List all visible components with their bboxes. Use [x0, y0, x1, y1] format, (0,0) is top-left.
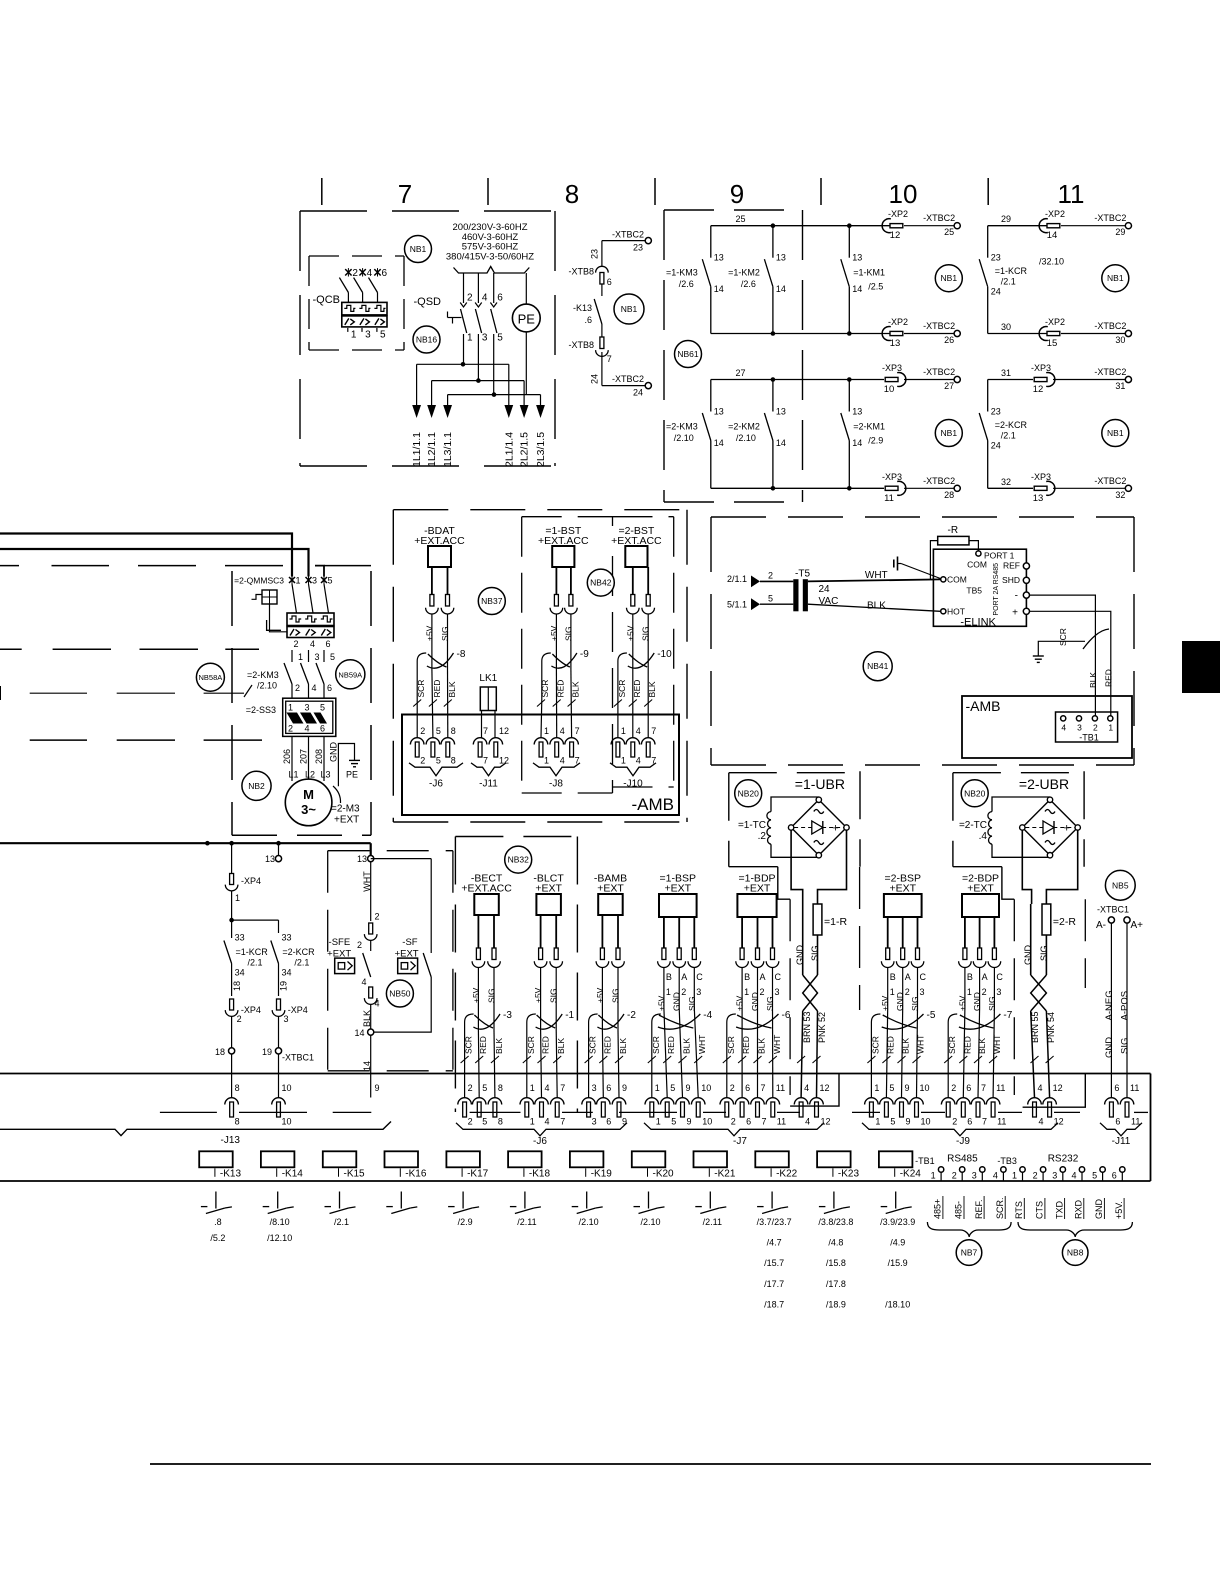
- svg-text:7: 7: [560, 1083, 565, 1093]
- connector -J11 bracket: [471, 763, 506, 790]
- svg-text:RTS: RTS: [1014, 1201, 1024, 1219]
- svg-text:NB1: NB1: [1107, 428, 1124, 438]
- svg-text:-XTBC2: -XTBC2: [1094, 367, 1126, 377]
- svg-text:13: 13: [265, 854, 275, 864]
- wire A2 GND: [972, 917, 988, 1011]
- connector pin 7: [641, 726, 656, 766]
- svg-text:14: 14: [776, 284, 786, 294]
- svg-text:SCR: SCR: [526, 1036, 536, 1054]
- wire SIG: [1039, 935, 1049, 975]
- svg-text:SIG: SIG: [1120, 1038, 1131, 1054]
- svg-text:4: 4: [482, 293, 488, 304]
- NB32 note circle: [505, 846, 532, 873]
- cable marker -10: [628, 649, 672, 668]
- terminal strip -TB3 RS232: [997, 1154, 1078, 1167]
- svg-text:-XTBC2: -XTBC2: [1094, 213, 1126, 223]
- relay contact -K15: [325, 1192, 356, 1228]
- svg-text:GND: GND: [972, 992, 982, 1011]
- svg-text:.8: .8: [214, 1217, 222, 1227]
- svg-text:7: 7: [761, 1083, 766, 1093]
- svg-text:=2-KM3: =2-KM3: [247, 670, 279, 680]
- svg-text:SIG: SIG: [910, 996, 920, 1011]
- svg-text:RED: RED: [666, 1036, 676, 1054]
- svg-text:=1-KCR: =1-KCR: [995, 266, 1028, 276]
- svg-text:A: A: [681, 972, 687, 982]
- wire 23 to terminal XTBC2-23: [590, 241, 646, 266]
- svg-text:REF: REF: [1003, 561, 1020, 571]
- svg-text:-TB1: -TB1: [915, 1156, 935, 1166]
- contactor auxiliary contact =1-KM1: [841, 226, 885, 334]
- svg-text:6: 6: [327, 683, 332, 693]
- svg-text:-R: -R: [948, 525, 959, 536]
- disconnect switch QSD: [414, 273, 504, 395]
- dashed frame edge and feed to pole 5: [0, 566, 371, 577]
- communication module -ELINK: [933, 549, 1029, 628]
- svg-text:12: 12: [820, 1083, 830, 1093]
- svg-text:4: 4: [993, 1171, 998, 1181]
- svg-text:/2.1: /2.1: [1001, 431, 1016, 441]
- resistor -R: [930, 525, 978, 579]
- svg-text:SCR: SCR: [1058, 628, 1068, 646]
- svg-text:PE: PE: [518, 311, 536, 326]
- wire B1 +5V: [880, 917, 896, 1011]
- svg-text:12: 12: [499, 726, 509, 736]
- svg-text:/2.10: /2.10: [640, 1217, 660, 1227]
- wire GND: [1023, 904, 1033, 975]
- svg-text:-3: -3: [503, 1010, 512, 1021]
- svg-text:NB41: NB41: [867, 661, 889, 671]
- svg-text:NB7: NB7: [961, 1248, 978, 1258]
- wire RED: [553, 669, 566, 738]
- wire WHT from node 13: [362, 862, 380, 922]
- =1-BST dashed sub-frame: [522, 517, 613, 793]
- svg-text:+EXT: +EXT: [597, 883, 624, 895]
- relay -K23: [817, 1151, 859, 1179]
- wire RED: [599, 1030, 612, 1098]
- svg-text:SCR: SCR: [464, 1036, 474, 1054]
- sensor module -BAMB: [594, 873, 627, 916]
- svg-text:=2-KM3: =2-KM3: [666, 422, 698, 432]
- terminal -XTBC2 30: [1094, 321, 1131, 345]
- feeder arrows 1L1 1L2 1L3 2L1 2L2 2L3: [411, 405, 547, 467]
- svg-text:/2.11: /2.11: [517, 1217, 536, 1227]
- svg-text:/2.9: /2.9: [868, 436, 883, 446]
- wire WHT: [989, 1008, 1002, 1098]
- svg-text:SCR: SCR: [588, 1036, 598, 1054]
- svg-text:32: 32: [1001, 477, 1011, 487]
- wire C3 SIG: [765, 917, 782, 1011]
- svg-text:M: M: [303, 787, 314, 802]
- svg-text:7: 7: [762, 1117, 767, 1127]
- svg-text:8: 8: [235, 1117, 240, 1127]
- svg-text:+EXT: +EXT: [665, 883, 692, 895]
- wire +5V: [625, 567, 639, 669]
- terminal -XTBC1 18: [215, 1047, 235, 1098]
- relay contact -K21: [695, 1192, 726, 1228]
- board -AMB (terminal side) outline: [962, 696, 1132, 758]
- svg-text:1L1/1.1: 1L1/1.1: [411, 432, 423, 467]
- svg-text:-SF: -SF: [402, 937, 418, 948]
- svg-text:1: 1: [744, 987, 749, 997]
- svg-text:2: 2: [467, 293, 473, 304]
- relay -K22: [755, 1151, 797, 1179]
- NB61 note circle: [675, 341, 702, 368]
- protective earth terminal PE: [512, 273, 540, 395]
- svg-text:2: 2: [468, 1083, 473, 1093]
- svg-text:206: 206: [282, 749, 292, 764]
- svg-text:24: 24: [819, 584, 831, 595]
- connector pin 10: [691, 1083, 712, 1127]
- svg-text:/5.2: /5.2: [210, 1233, 225, 1243]
- connector pin 11: [766, 1083, 786, 1127]
- svg-text:4: 4: [560, 756, 565, 766]
- twisted pair crossing: [803, 975, 818, 1011]
- svg-text:5: 5: [436, 726, 441, 736]
- svg-text:+5V: +5V: [735, 995, 745, 1011]
- svg-text:19: 19: [279, 981, 289, 991]
- svg-text:6: 6: [1112, 1171, 1117, 1181]
- svg-text:-5: -5: [927, 1010, 936, 1021]
- connector pin 5: [660, 1083, 676, 1127]
- svg-text:-J10: -J10: [623, 779, 643, 790]
- svg-text:2: 2: [1093, 723, 1098, 733]
- svg-text:5: 5: [482, 1117, 487, 1127]
- connector pin 2: [941, 1083, 957, 1127]
- svg-text:SIG: SIG: [563, 626, 573, 641]
- svg-text:7: 7: [575, 726, 580, 736]
- external cable dashed boundaries: [790, 867, 1085, 1095]
- NB37 note circle: [478, 588, 505, 615]
- connector pin J11-7: [473, 726, 488, 766]
- connector pin 4: [626, 726, 641, 766]
- bridge rectifier =1-UBR: [788, 797, 849, 858]
- svg-text:23: 23: [633, 243, 643, 253]
- svg-text:4: 4: [312, 683, 317, 693]
- svg-text:7: 7: [560, 1117, 565, 1127]
- plug -XP2 pin 15: [1039, 317, 1065, 349]
- svg-text:-XTBC2: -XTBC2: [923, 213, 955, 223]
- svg-text:4: 4: [1072, 1171, 1077, 1181]
- svg-text:GND: GND: [895, 992, 905, 1011]
- svg-text:10: 10: [701, 1083, 711, 1093]
- svg-text:10: 10: [889, 179, 918, 209]
- svg-text:=1-KM3: =1-KM3: [666, 268, 698, 278]
- svg-text:1: 1: [931, 1171, 936, 1181]
- label =2-UBR: [1019, 776, 1069, 792]
- footer rule: [150, 1463, 1151, 1465]
- svg-text:C: C: [920, 972, 927, 982]
- svg-text:9: 9: [686, 1083, 691, 1093]
- wire: [988, 487, 1126, 489]
- svg-text:6: 6: [1114, 1083, 1119, 1093]
- svg-text:2: 2: [295, 683, 300, 693]
- svg-text:NB59A: NB59A: [338, 670, 362, 679]
- wire SIG: [810, 935, 820, 975]
- svg-text:B: B: [744, 972, 750, 982]
- svg-text:C: C: [775, 972, 782, 982]
- svg-text:/2.6: /2.6: [679, 279, 694, 289]
- sensor module -BLCT: [533, 873, 564, 916]
- plug -XP2 pin 12: [882, 209, 908, 241]
- connector pin 6: [957, 1083, 973, 1127]
- terminal -XTBC1 19: [262, 1047, 314, 1098]
- svg-text:/3.7/23.7: /3.7/23.7: [757, 1217, 792, 1227]
- svg-text:8: 8: [498, 1117, 503, 1127]
- screen wire hook: [948, 1014, 957, 1056]
- wire PNK 54: [1046, 1011, 1056, 1098]
- wire C3 SIG: [987, 917, 1004, 1011]
- connector -J13 bracket: [0, 1122, 391, 1147]
- svg-text:6: 6: [745, 1083, 750, 1093]
- control bus wire 13: [0, 841, 371, 846]
- svg-text:23: 23: [991, 253, 1001, 263]
- svg-text:RED: RED: [741, 1036, 751, 1054]
- svg-text:BLK: BLK: [977, 1038, 987, 1054]
- connector pin 1: [645, 1083, 661, 1127]
- svg-text:WHT: WHT: [362, 871, 372, 892]
- wire to terminal 27: [904, 379, 954, 381]
- connector pin J11-6: [1105, 1083, 1121, 1127]
- svg-text:BLK: BLK: [447, 681, 457, 697]
- svg-text:-XTBC2: -XTBC2: [612, 374, 644, 384]
- wire C3 SIG: [687, 917, 704, 1011]
- svg-text:-: -: [1015, 590, 1018, 601]
- wire SIG: [641, 567, 655, 669]
- svg-text:/18.7: /18.7: [764, 1299, 784, 1309]
- cable marker -8: [427, 649, 466, 668]
- NB1 note circle (wires 31-32): [1102, 420, 1129, 447]
- NB7 note circle: [956, 1240, 982, 1266]
- wire WHT: [913, 1008, 926, 1098]
- svg-text:RED: RED: [556, 680, 566, 698]
- svg-text:-J11: -J11: [479, 779, 498, 790]
- svg-text:RED: RED: [432, 680, 442, 698]
- plug -XP2 pin 13: [882, 317, 908, 349]
- connector pin 1: [611, 726, 626, 766]
- -BECT/-BLCT dashed frame: [455, 837, 577, 1113]
- terminal TB3-1 RTS: [1012, 1167, 1025, 1219]
- svg-text:A+: A+: [1131, 920, 1144, 931]
- svg-text:=1-TC: =1-TC: [738, 820, 766, 831]
- svg-text:SCR: SCR: [540, 680, 550, 698]
- svg-text:2: 2: [951, 1083, 956, 1093]
- svg-text:7: 7: [981, 1083, 986, 1093]
- terminal -XTBC2 28: [923, 476, 960, 500]
- svg-text:2: 2: [420, 756, 425, 766]
- wire RS485 minus to TB1-2: [1029, 595, 1098, 715]
- NB1 note circle (section 8): [614, 294, 644, 324]
- svg-text:10: 10: [282, 1117, 292, 1127]
- svg-text:-T5: -T5: [795, 569, 810, 580]
- svg-text:2: 2: [730, 1083, 735, 1093]
- svg-text:BLK: BLK: [494, 1038, 504, 1054]
- svg-text:19: 19: [262, 1047, 272, 1057]
- svg-text:2L3/1.5: 2L3/1.5: [535, 432, 547, 467]
- svg-text:RED: RED: [885, 1036, 895, 1054]
- svg-text:-K15: -K15: [344, 1169, 366, 1180]
- svg-text:-XP2: -XP2: [888, 209, 908, 219]
- svg-text:1L2/1.1: 1L2/1.1: [426, 432, 438, 467]
- svg-text:1L3/1.1: 1L3/1.1: [442, 432, 454, 467]
- svg-text:3: 3: [365, 330, 371, 341]
- svg-text:2: 2: [352, 268, 358, 279]
- svg-text:GND: GND: [329, 742, 339, 763]
- corner mark near QMMSC3: [267, 620, 281, 630]
- column number 9: [730, 179, 744, 209]
- connector pin 6: [597, 1083, 612, 1127]
- cable marker -2: [597, 1010, 636, 1029]
- svg-text:-XP4: -XP4: [288, 1005, 308, 1015]
- svg-text:+EXT: +EXT: [890, 883, 917, 895]
- svg-text:-XP3: -XP3: [882, 472, 902, 482]
- svg-text:-SFE: -SFE: [329, 937, 351, 948]
- wire GND from bridge: [791, 830, 803, 904]
- svg-text:1: 1: [890, 987, 895, 997]
- svg-text:BLK: BLK: [556, 1038, 566, 1054]
- svg-text:WHT: WHT: [772, 1035, 782, 1054]
- relay contact -K17: [448, 1192, 479, 1228]
- wire L1 distribution: [417, 362, 509, 405]
- wire B1 +5V: [957, 917, 973, 1011]
- ELINK section dashed frame: [711, 517, 1134, 765]
- svg-text:LK1: LK1: [479, 673, 497, 684]
- svg-text:GND: GND: [795, 945, 805, 966]
- svg-text:.4: .4: [979, 831, 988, 842]
- terminal -XTBC2 32: [1094, 476, 1131, 500]
- svg-text:4: 4: [1061, 723, 1066, 733]
- wire RED: [959, 1008, 972, 1098]
- relay contact -K24: [880, 1192, 915, 1310]
- svg-text:25: 25: [944, 227, 954, 237]
- svg-text:=2-KCR: =2-KCR: [282, 947, 315, 957]
- svg-text:-J9: -J9: [956, 1136, 970, 1147]
- svg-text:=1-UBR: =1-UBR: [795, 776, 845, 792]
- svg-text:SIG: SIG: [487, 988, 497, 1003]
- svg-text:SIG: SIG: [549, 988, 559, 1003]
- sensor module =2-BSP: [884, 873, 922, 918]
- svg-text:1: 1: [296, 576, 301, 586]
- svg-text:2L2/1.5: 2L2/1.5: [519, 432, 531, 467]
- svg-text:24: 24: [991, 287, 1001, 297]
- wire SCR: [461, 1036, 474, 1097]
- connector pin 4: [535, 1083, 550, 1127]
- svg-text:/17.8: /17.8: [826, 1279, 846, 1289]
- connector pin 5: [472, 1083, 487, 1127]
- svg-text:RED: RED: [962, 1036, 972, 1054]
- terminal block -TB1 on AMB: [1056, 712, 1118, 743]
- relay contact -K23: [818, 1192, 853, 1310]
- svg-text:13: 13: [852, 253, 862, 263]
- svg-text:2: 2: [357, 940, 362, 950]
- svg-text:2: 2: [293, 639, 298, 649]
- connector pin J11-11: [1120, 1083, 1140, 1127]
- svg-text:PORT 1: PORT 1: [984, 551, 1015, 561]
- wire A-POS SIG: [1120, 923, 1131, 1098]
- svg-text:SCR: SCR: [651, 1036, 661, 1054]
- svg-text:RS485: RS485: [947, 1154, 978, 1165]
- wire RED: [738, 1008, 751, 1098]
- wire 14 to J13-9: [362, 1035, 380, 1098]
- safety switch section -SFE/-SF dashed frame: [328, 851, 453, 1071]
- svg-text:BRN 53: BRN 53: [802, 1011, 812, 1043]
- svg-text:4: 4: [375, 999, 380, 1009]
- svg-text:NB20: NB20: [738, 788, 760, 798]
- terminal -XTBC2 25: [923, 213, 960, 237]
- svg-text:SIG: SIG: [611, 988, 621, 1003]
- wire BLK: [444, 669, 457, 738]
- node 13 junction at SFE: [357, 843, 374, 864]
- svg-text:BLK: BLK: [867, 601, 886, 612]
- relay contact -K13 .6: [573, 299, 602, 337]
- wire B1 +5V: [656, 917, 672, 1011]
- svg-text:6: 6: [746, 1117, 751, 1127]
- NB58A note circle: [196, 663, 224, 691]
- svg-text:2: 2: [982, 987, 987, 997]
- svg-text:14: 14: [714, 284, 724, 294]
- svg-text:6: 6: [1115, 1117, 1120, 1127]
- svg-text:/3.9/23.9: /3.9/23.9: [880, 1217, 915, 1227]
- wire SCR: [867, 1036, 880, 1097]
- svg-text:+EXT: +EXT: [334, 815, 359, 826]
- svg-text:-XTBC2: -XTBC2: [923, 321, 955, 331]
- svg-text:3: 3: [920, 987, 925, 997]
- svg-text:5: 5: [889, 1083, 894, 1093]
- connector pin 2: [458, 1083, 473, 1127]
- svg-text:PNK 54: PNK 54: [1046, 1012, 1056, 1043]
- svg-text:/2.1: /2.1: [334, 1217, 349, 1227]
- svg-text:/15.7: /15.7: [764, 1258, 784, 1268]
- svg-text:SHD: SHD: [1002, 575, 1020, 585]
- screen wire hook: [542, 653, 551, 700]
- motor =2-M3: [285, 779, 360, 826]
- svg-text:4: 4: [545, 1117, 550, 1127]
- svg-text:/32.10: /32.10: [1039, 257, 1064, 267]
- svg-text:2: 2: [237, 1014, 242, 1024]
- connector pin 7: [971, 1083, 987, 1127]
- wire SIG from bridge: [1046, 830, 1077, 904]
- svg-text:REF.: REF.: [974, 1199, 984, 1219]
- svg-text:15: 15: [1047, 338, 1058, 349]
- wire 31 group (=2-KCR): [988, 368, 1033, 380]
- transformer winding =2-TC: [959, 797, 1050, 857]
- svg-text:34: 34: [235, 968, 245, 978]
- svg-text:2: 2: [288, 724, 293, 734]
- wire WHT to COM: [808, 570, 941, 581]
- NB5 note circle: [1105, 870, 1135, 900]
- svg-text:/12.10: /12.10: [267, 1233, 292, 1243]
- svg-text:+5V: +5V: [549, 625, 559, 641]
- svg-text:BLK: BLK: [571, 681, 581, 697]
- svg-text:6: 6: [966, 1083, 971, 1093]
- section tab marker: [1182, 641, 1220, 693]
- svg-text:11: 11: [1058, 179, 1085, 209]
- svg-text:2/1.1: 2/1.1: [727, 574, 747, 584]
- svg-text:+5V: +5V: [957, 995, 967, 1011]
- svg-text:2: 2: [468, 1117, 473, 1127]
- svg-text:2: 2: [420, 726, 425, 736]
- svg-text:12: 12: [890, 230, 901, 241]
- plug -XP4 pin 2: [225, 999, 261, 1048]
- svg-text:NB5: NB5: [1112, 880, 1129, 890]
- bridge rectifier =2-UBR: [1020, 797, 1081, 858]
- svg-text:-XP2: -XP2: [1045, 209, 1065, 219]
- sensor module =1-BSP: [659, 873, 697, 918]
- svg-text:COM: COM: [947, 575, 967, 585]
- connector -J7 bracket: [644, 1123, 824, 1147]
- node 14 junction: [354, 1028, 373, 1038]
- svg-text:8: 8: [565, 179, 579, 209]
- svg-text:-TB3: -TB3: [997, 1156, 1017, 1166]
